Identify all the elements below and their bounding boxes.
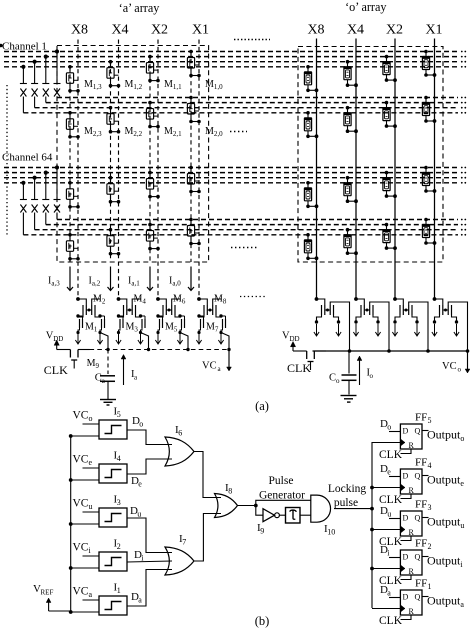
svg-text:X8: X8 (71, 23, 88, 38)
svg-text:e: e (138, 480, 142, 489)
svg-text:4: 4 (117, 454, 121, 463)
svg-text:(b): (b) (255, 614, 270, 628)
svg-text:VC: VC (73, 410, 89, 422)
svg-text:10: 10 (327, 528, 335, 537)
svg-text:Outputa: Outputa (427, 594, 464, 610)
svg-text:o: o (336, 377, 340, 385)
svg-text:Pulse: Pulse (269, 475, 294, 487)
svg-text:(a): (a) (255, 399, 269, 413)
svg-text:C: C (329, 373, 336, 384)
svg-text:Q: Q (415, 472, 421, 481)
svg-text:FF: FF (415, 538, 427, 550)
svg-text:‘o’ array: ‘o’ array (345, 0, 387, 14)
svg-text:VC: VC (73, 498, 89, 510)
svg-text:CLK: CLK (44, 363, 68, 377)
svg-text:9: 9 (260, 527, 264, 536)
svg-text:FF: FF (415, 499, 427, 511)
svg-text:Q: Q (415, 427, 421, 436)
svg-text:7: 7 (182, 538, 186, 547)
svg-text:D: D (403, 553, 409, 562)
svg-text:R: R (409, 607, 415, 616)
svg-text:X1: X1 (192, 23, 209, 38)
svg-text:FF: FF (415, 457, 427, 469)
svg-text:CLK: CLK (379, 615, 403, 627)
svg-text:Locking: Locking (328, 483, 367, 495)
svg-text:Outputu: Outputu (427, 515, 464, 531)
svg-text:8: 8 (228, 487, 232, 496)
svg-text:Q: Q (415, 593, 421, 602)
svg-text:3: 3 (117, 498, 121, 507)
svg-text:a: a (138, 596, 142, 605)
svg-text:‘a’ array: ‘a’ array (119, 1, 161, 15)
svg-text:4: 4 (428, 461, 432, 470)
svg-text:Outputi: Outputi (427, 554, 463, 570)
svg-text:R: R (409, 528, 415, 537)
svg-text:VC: VC (73, 454, 89, 466)
svg-text:FF: FF (415, 578, 427, 590)
svg-text:DD: DD (53, 335, 63, 343)
svg-text:2: 2 (117, 542, 121, 551)
svg-text:o: o (89, 414, 93, 423)
svg-text:D: D (403, 514, 409, 523)
svg-text:5: 5 (428, 416, 432, 425)
svg-text:X4: X4 (347, 23, 364, 38)
svg-text:Channel 64: Channel 64 (2, 152, 53, 164)
svg-text:Outputo: Outputo (427, 428, 464, 444)
svg-text:5: 5 (117, 410, 121, 419)
svg-text:VC: VC (73, 586, 89, 598)
svg-text:FF: FF (415, 412, 427, 424)
svg-text:e: e (89, 458, 93, 467)
svg-text:1: 1 (428, 582, 432, 591)
svg-text:R: R (409, 567, 415, 576)
svg-text:X2: X2 (386, 23, 403, 38)
svg-text:o: o (139, 420, 143, 429)
svg-text:u: u (387, 510, 391, 519)
svg-text:Generator: Generator (259, 490, 305, 502)
svg-text:Outpute: Outpute (427, 473, 464, 489)
svg-text:Q: Q (415, 553, 421, 562)
svg-text:o: o (387, 423, 391, 432)
svg-text:VC: VC (442, 361, 457, 372)
svg-text:D: D (403, 593, 409, 602)
svg-text:VC: VC (73, 542, 89, 554)
svg-text:R: R (409, 486, 415, 495)
svg-text:D: D (403, 472, 409, 481)
svg-text:CLK: CLK (287, 361, 311, 375)
svg-text:X8: X8 (307, 23, 324, 38)
svg-text:e: e (387, 468, 391, 477)
svg-text:X1: X1 (425, 23, 442, 38)
svg-text:o: o (458, 366, 462, 374)
svg-text:R: R (409, 441, 415, 450)
svg-text:X4: X4 (111, 23, 128, 38)
svg-text:REF: REF (41, 589, 54, 597)
svg-text:pulse: pulse (334, 497, 358, 509)
svg-text:u: u (137, 510, 141, 519)
svg-text:2: 2 (428, 542, 432, 551)
svg-text:u: u (89, 502, 93, 511)
svg-text:C: C (95, 373, 102, 384)
svg-text:Q: Q (415, 514, 421, 523)
svg-text:D: D (403, 427, 409, 436)
svg-text:X2: X2 (151, 23, 168, 38)
svg-text:a: a (89, 590, 93, 599)
svg-text:Channel 1: Channel 1 (2, 41, 47, 53)
svg-text:DD: DD (290, 335, 300, 343)
svg-text:CLK: CLK (379, 449, 403, 461)
svg-text:a: a (387, 589, 391, 598)
svg-text:VC: VC (202, 361, 217, 372)
svg-text:o: o (370, 372, 374, 380)
svg-text:1: 1 (117, 586, 121, 595)
svg-text:6: 6 (178, 429, 182, 438)
svg-text:3: 3 (428, 503, 432, 512)
